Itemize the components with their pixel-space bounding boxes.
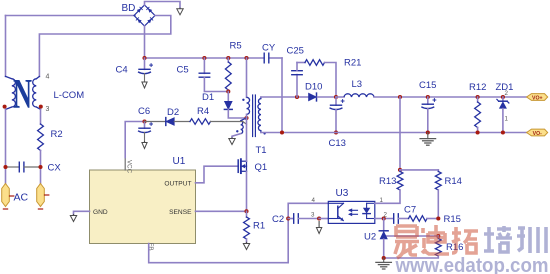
wire choke left pin down to CX junction and AC connector: [5, 109, 7, 184]
svg-text:3: 3: [311, 212, 315, 219]
label R16: [446, 242, 463, 253]
capacitor C4: [138, 58, 153, 82]
capacitor CY: [264, 53, 269, 63]
label BD: [122, 3, 136, 14]
label Q1: [255, 162, 268, 173]
svg-text:BD: BD: [122, 3, 136, 14]
diode D2: [145, 118, 175, 126]
label D10: [305, 82, 322, 93]
pin label FB: [147, 243, 154, 251]
svg-text:R14: R14: [445, 176, 462, 187]
resistor R15: [409, 216, 439, 222]
label C15: [419, 80, 436, 91]
capacitor CX: [6, 162, 41, 172]
output return rail wire: [261, 132, 527, 134]
resistor R4: [174, 119, 246, 125]
wire VCC pin up to bias node: [125, 122, 144, 171]
common-mode choke L-COM left winding: [6, 76, 16, 109]
svg-text:VO+: VO+: [532, 95, 543, 101]
resistor R14: [435, 170, 441, 219]
capacitor C7: [394, 214, 409, 223]
T1 secondary phase dot: [263, 132, 265, 134]
junction dot rail at CY / primary top: [244, 56, 248, 60]
wire Q1 source down to sense node: [246, 171, 248, 211]
junction dot primary clamp node: [244, 116, 248, 120]
svg-text:L3: L3: [352, 79, 363, 90]
label C13: [329, 138, 346, 149]
pin number 3 of U3: [311, 212, 315, 219]
earth ground bars below C15: [420, 133, 436, 146]
connector Vo+: [527, 94, 548, 102]
label U3: [336, 188, 349, 199]
pin number 2 of U3: [384, 212, 388, 219]
svg-text:R1: R1: [253, 221, 265, 232]
svg-text:R2: R2: [51, 129, 63, 140]
svg-text:4: 4: [46, 74, 50, 81]
choke core letter N: [13, 72, 32, 118]
label C25: [287, 46, 304, 57]
resistor R12: [475, 95, 481, 135]
junction dot divider top: [398, 168, 402, 172]
junction dot C15 bottom: [426, 130, 430, 134]
svg-text:1: 1: [505, 116, 509, 123]
label U2: [364, 232, 376, 243]
label R5: [230, 41, 242, 52]
svg-text:VCC: VCC: [125, 160, 132, 174]
diode D10: [309, 93, 337, 101]
capacitor C25: [292, 63, 302, 98]
svg-text:R15: R15: [444, 214, 461, 225]
shunt regulator U2: [379, 219, 388, 259]
junction dot D10 output: [334, 95, 338, 99]
svg-text:D2: D2: [167, 107, 179, 118]
svg-text:www.edatop.com: www.edatop.com: [395, 255, 549, 274]
zener diode ZD1: [497, 95, 509, 135]
wire rail corner down to transformer primary: [246, 58, 248, 97]
svg-text:SENSE: SENSE: [169, 209, 192, 216]
earth arrow below opto pin 3: [316, 222, 321, 234]
pin label VCC: [125, 160, 132, 174]
svg-text:L-COM: L-COM: [54, 90, 85, 101]
junction dot sense node: [244, 209, 248, 213]
svg-text:OUTPUT: OUTPUT: [164, 180, 191, 187]
pin number 3 of choke: [46, 106, 50, 113]
label U1: [173, 156, 186, 167]
junction dot U2 anode node: [382, 256, 386, 260]
AC connector terminal right: [37, 184, 49, 210]
label C5: [177, 65, 189, 76]
wire L3 node down to divider top: [399, 97, 401, 170]
resistor R2: [38, 109, 44, 184]
svg-text:2: 2: [505, 90, 509, 97]
svg-text:R4: R4: [197, 106, 209, 117]
pin number 4 of choke: [46, 74, 50, 81]
earth arrow at bridge top: [177, 8, 183, 15]
junction dot CX left: [3, 165, 7, 169]
label R14: [445, 176, 462, 187]
pin number 1 of ZD1: [505, 116, 509, 123]
svg-text:CX: CX: [48, 163, 62, 174]
svg-text:C5: C5: [177, 65, 189, 76]
label C4: [116, 65, 128, 76]
label R13: [379, 176, 396, 187]
capacitor C5: [199, 58, 228, 92]
T1 primary phase dot: [242, 99, 244, 101]
svg-text:C15: C15: [419, 80, 436, 91]
label R2: [51, 129, 63, 140]
junction dot compensation node: [436, 216, 440, 220]
label AC: [14, 192, 29, 204]
transformer T1 auxiliary winding: [232, 118, 247, 138]
choke pin dot left: [3, 105, 7, 109]
junction dot rail at C4: [142, 56, 146, 60]
transformer T1 primary winding: [247, 97, 250, 118]
label C7: [404, 205, 416, 216]
svg-text:3: 3: [46, 106, 50, 113]
svg-text:C25: C25: [287, 46, 304, 57]
wire BD top vertex to earth arrow: [145, 2, 181, 9]
wire AC line left column and to bridge left terminal: [6, 16, 136, 77]
earth ground bars below U2: [376, 258, 392, 269]
svg-text:N: N: [13, 72, 32, 118]
DC bus rail wire: [145, 58, 283, 133]
secondary top wire: [261, 96, 309, 98]
wire FB pin down and across to feedback node: [149, 203, 329, 262]
inductor L3: [344, 94, 374, 97]
wire BD bottom vertex down to DC rail corner: [144, 26, 146, 58]
junction dot C25 tap: [295, 95, 299, 99]
svg-text:D10: D10: [305, 82, 322, 93]
wire L3 to output rail: [374, 96, 527, 98]
bridge rectifier BD: [134, 5, 155, 26]
label D2: [167, 107, 179, 118]
earth arrow below aux winding: [229, 138, 235, 145]
earth arrow at U1 GND: [70, 215, 76, 222]
wire primary clamp node down to Q1 drain: [246, 118, 248, 161]
label L3: [352, 79, 363, 90]
resistor R1: [244, 211, 250, 242]
svg-text:R5: R5: [230, 41, 242, 52]
label R4: [197, 106, 209, 117]
label R15: [444, 214, 461, 225]
label CX: [48, 163, 62, 174]
wire GND pin to earth arrow: [74, 211, 90, 214]
transformer T1 core: [253, 95, 256, 137]
label C2: [272, 214, 284, 225]
wire U2 ref to divider mid: [386, 235, 438, 237]
label D1: [202, 92, 214, 103]
label ZD1: [496, 82, 514, 93]
junction dot opto pin 3 node: [317, 216, 321, 220]
label T1: [256, 145, 267, 156]
T1 aux phase dot: [236, 130, 238, 132]
resistor R16: [384, 236, 442, 258]
junction dot rail at C5: [202, 56, 206, 60]
label R1: [253, 221, 265, 232]
pin label SENSE: [169, 209, 192, 216]
wire BD right vertex loop to choke pin 4: [39, 16, 170, 77]
wire OUTPUT pin to Q1 gate: [196, 166, 239, 183]
svg-text:C4: C4: [116, 65, 128, 76]
svg-text:VO-: VO-: [533, 131, 542, 137]
label R21: [344, 58, 361, 69]
svg-text:U1: U1: [173, 156, 186, 167]
svg-text:U2: U2: [364, 232, 376, 243]
junction dot clamp node R5/C5/D1: [226, 89, 230, 93]
junction dot CY drop on return rail: [280, 130, 284, 134]
choke pin dot right (pin 3): [39, 105, 43, 109]
wire D10 node to L3: [336, 96, 344, 98]
junction dot C13 bottom: [334, 130, 338, 134]
svg-text:AC: AC: [14, 192, 29, 204]
label R12: [469, 82, 486, 93]
capacitor C15: [421, 95, 436, 133]
resistor R21: [305, 60, 325, 66]
svg-text:CY: CY: [262, 43, 276, 54]
capacitor C2: [288, 214, 319, 223]
svg-text:D1: D1: [202, 92, 214, 103]
svg-text:U3: U3: [336, 188, 349, 199]
snubber wire C25 to R21: [297, 62, 305, 64]
junction dot CX right: [38, 165, 42, 169]
wire pin3 node into optocoupler: [319, 218, 328, 220]
connector Vo-: [527, 129, 548, 137]
capacitor C13: [330, 97, 345, 133]
watermark url text: [395, 255, 549, 274]
common-mode choke L-COM right winding: [33, 76, 41, 109]
label CY: [262, 43, 276, 54]
svg-text:C6: C6: [138, 106, 150, 117]
earth arrow below C6: [142, 142, 147, 149]
pin number 4 of U3: [312, 197, 316, 204]
resistor R13: [375, 170, 403, 203]
label C6: [138, 106, 150, 117]
junction dot L3 output: [398, 95, 402, 99]
svg-text:C7: C7: [404, 205, 416, 216]
svg-text:GND: GND: [93, 209, 108, 216]
svg-text:C13: C13: [329, 138, 346, 149]
diode D1: [224, 92, 246, 119]
svg-text:C2: C2: [272, 214, 284, 225]
snubber wire R21 down to D10 cathode node: [325, 63, 337, 98]
wire opto pin2 to U2 cathode node: [375, 218, 394, 220]
pin number 2 of ZD1: [505, 90, 509, 97]
junction dot feedback node at C2: [286, 216, 290, 220]
pin number 1 of U3: [380, 197, 384, 204]
junction dot rail at R5: [226, 56, 230, 60]
svg-text:Q1: Q1: [255, 162, 268, 173]
svg-text:T1: T1: [256, 145, 267, 156]
AC connector terminal left: [2, 184, 14, 210]
wire SENSE pin to current sense node: [196, 210, 247, 212]
junction dot bias node C6: [142, 119, 146, 123]
watermark chinese characters: [395, 225, 546, 258]
label L-COM: [54, 90, 85, 101]
transformer T1 secondary winding: [258, 97, 261, 133]
pin label OUTPUT: [164, 180, 191, 187]
capacitor C6: [138, 122, 153, 142]
svg-text:R12: R12: [469, 82, 486, 93]
transistor Q1: [238, 159, 246, 173]
optocoupler U3: [328, 201, 375, 223]
wire divider top across to R14: [400, 169, 438, 171]
earth arrow below R1: [243, 242, 249, 249]
controller U1 box: [90, 170, 196, 244]
junction dot U2 cathode node: [382, 216, 386, 220]
svg-text:R21: R21: [344, 58, 361, 69]
resistor R5: [225, 58, 231, 92]
pin label GND: [93, 209, 108, 216]
svg-text:4: 4: [312, 197, 316, 204]
junction dot reference node: [436, 234, 440, 238]
svg-text:R13: R13: [379, 176, 396, 187]
earth arrow below C4: [142, 82, 147, 88]
